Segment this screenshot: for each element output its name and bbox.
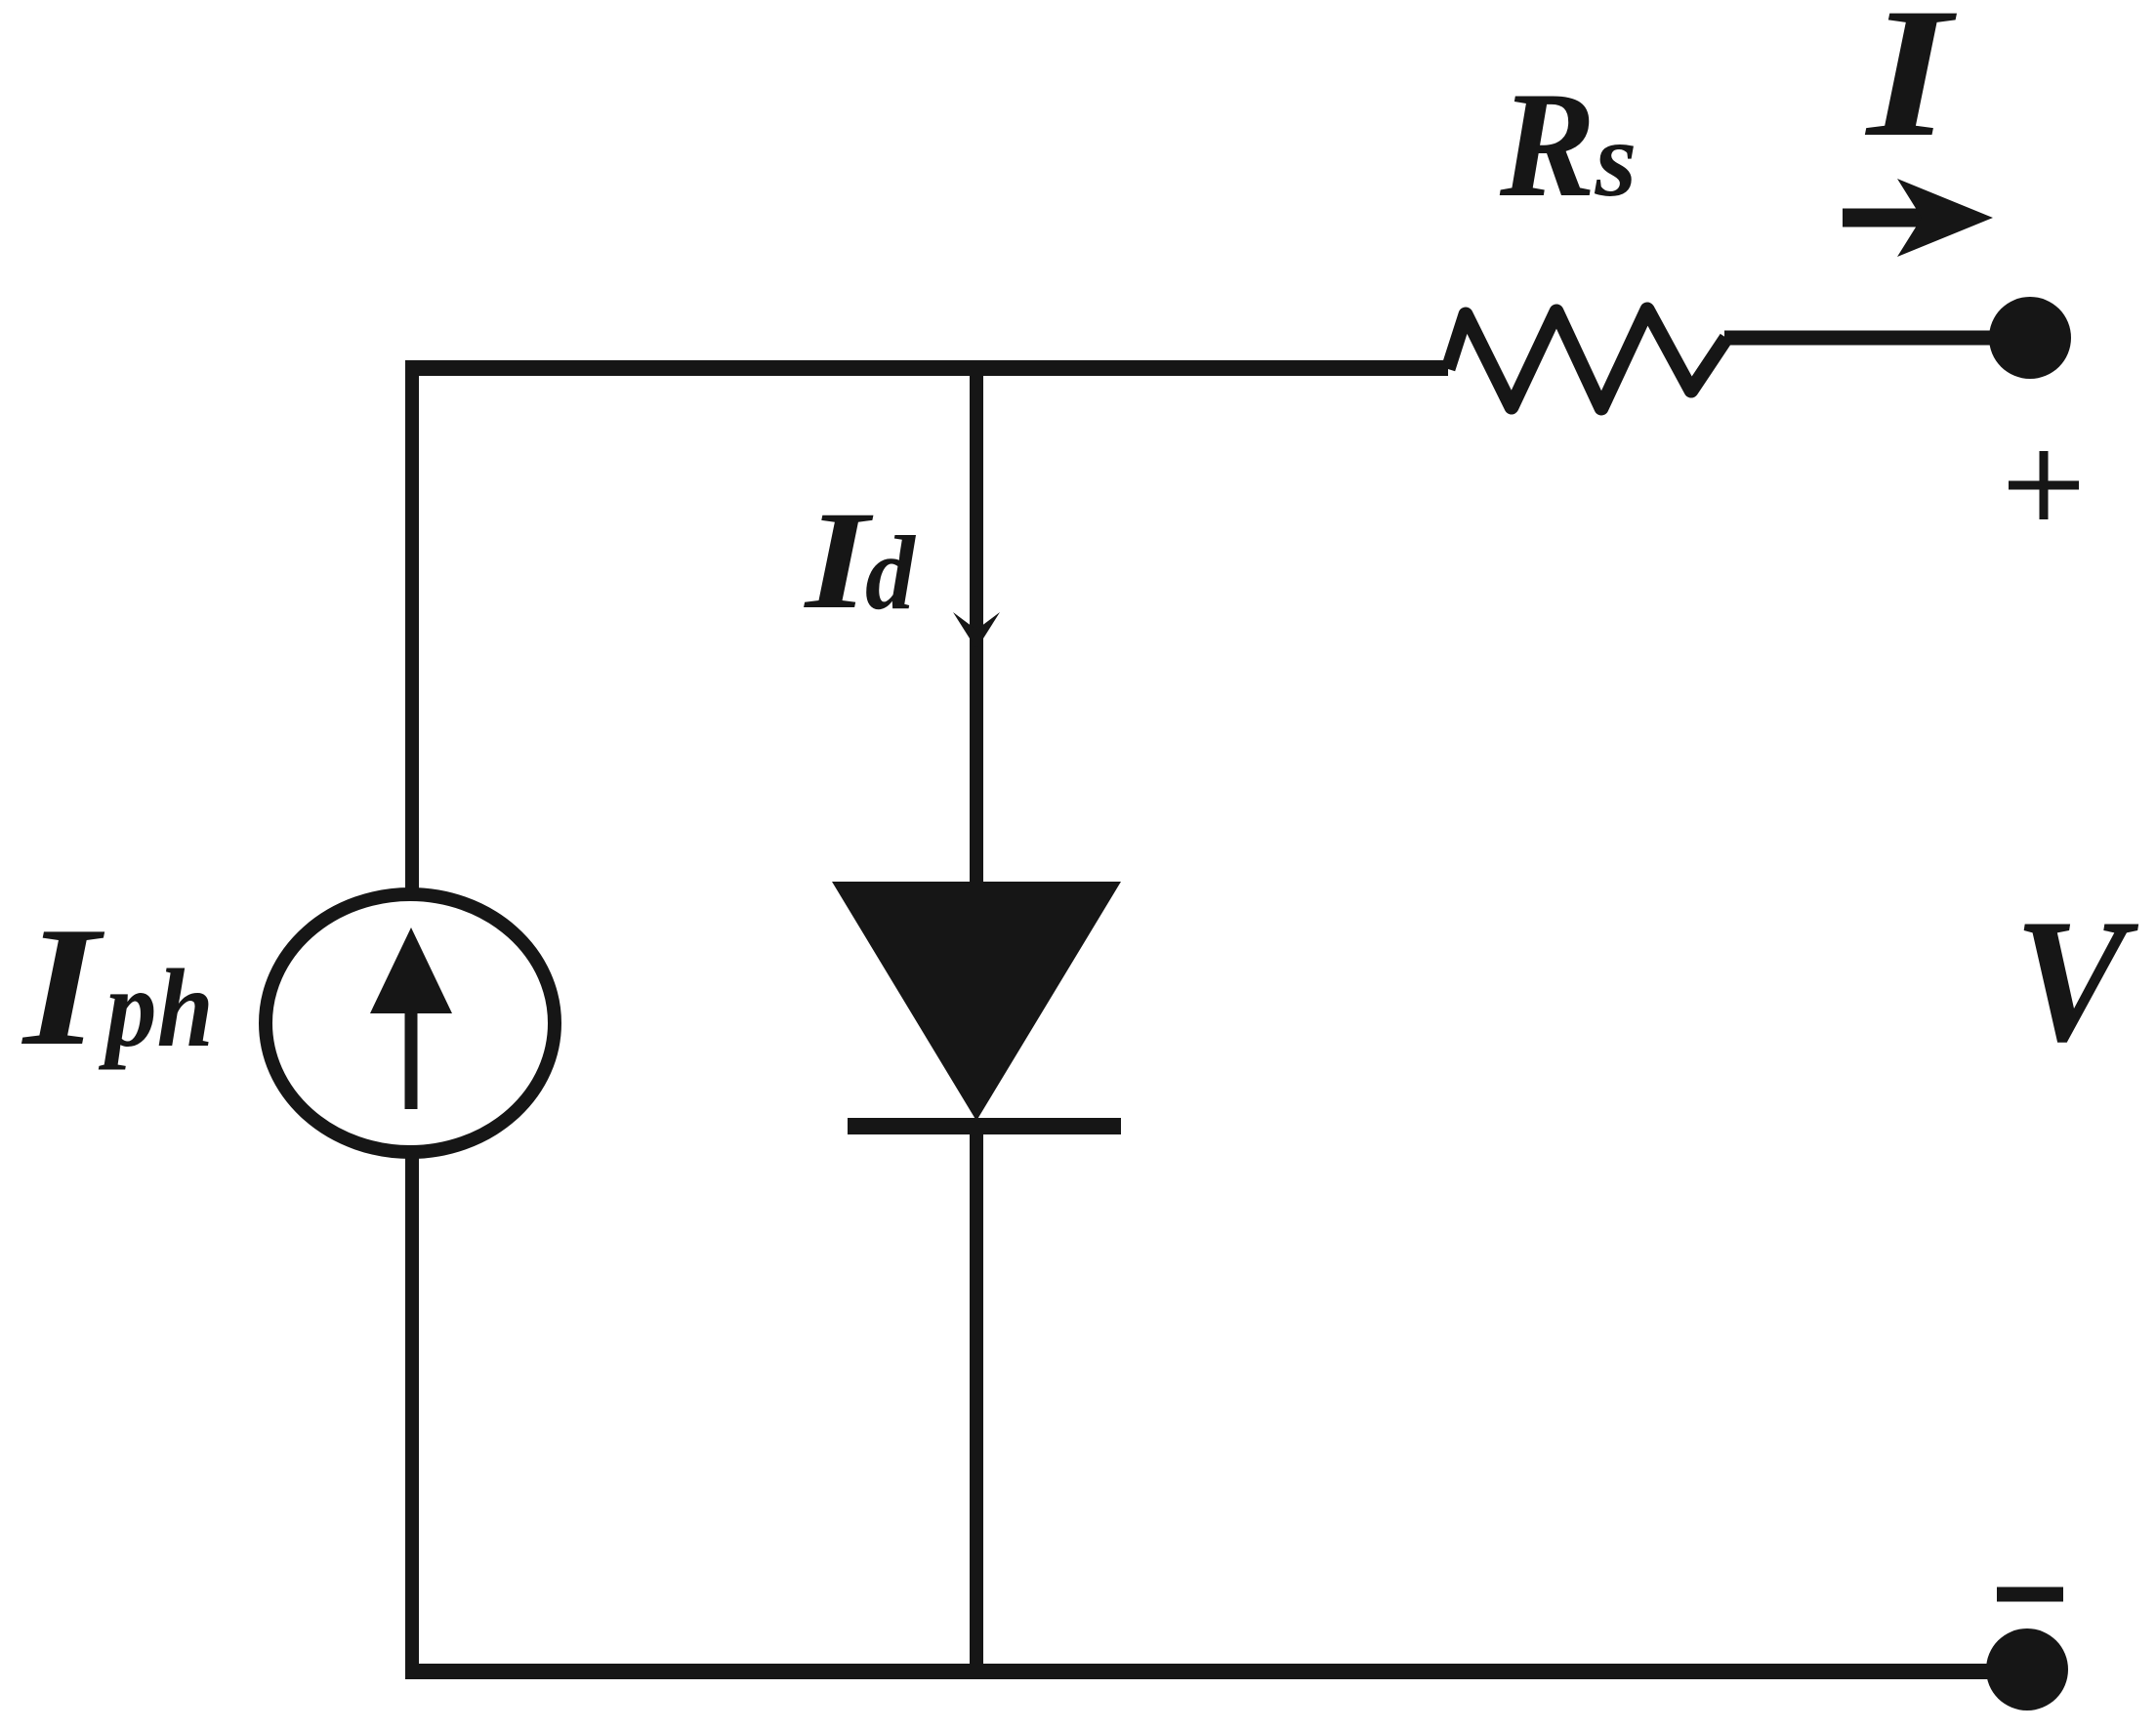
label Iph [21,891,214,1081]
svg-text:ph: ph [99,945,214,1070]
svg-text:V: V [2014,884,2139,1079]
svg-text:I: I [1864,0,1957,176]
wire left vertical upper [405,360,419,893]
wire top horizontal (node A to resistor) [405,360,1448,376]
svg-text:d: d [865,515,916,632]
arrow current I [1843,179,1993,257]
diode D1 triangle [832,882,1121,1121]
diode D1 cathode bar [848,1118,1121,1134]
current source arrow head [370,927,452,1013]
current source Iph circle [266,894,555,1152]
node terminal top (+) dot [1989,297,2071,379]
wire middle branch upper (diode anode) [970,360,983,888]
arrow diode current Id [953,612,1000,649]
label Rs [1499,61,1637,228]
label Id [804,482,917,639]
node terminal bottom (-) dot [1986,1628,2068,1710]
wire left vertical lower [405,1154,419,1673]
svg-text:I: I [21,891,105,1081]
minus sign [1997,1587,2063,1602]
plus sign [2009,451,2079,519]
current source arrow shaft [405,1006,418,1109]
wire resistor to output node [1724,331,1994,346]
svg-text:I: I [804,482,875,639]
resistor Rs zigzag [1448,309,1726,408]
svg-text:s: s [1595,100,1638,219]
wire bottom horizontal [405,1664,1992,1679]
wire middle branch lower (diode cathode) [970,1123,983,1673]
svg-text:R: R [1499,61,1596,228]
